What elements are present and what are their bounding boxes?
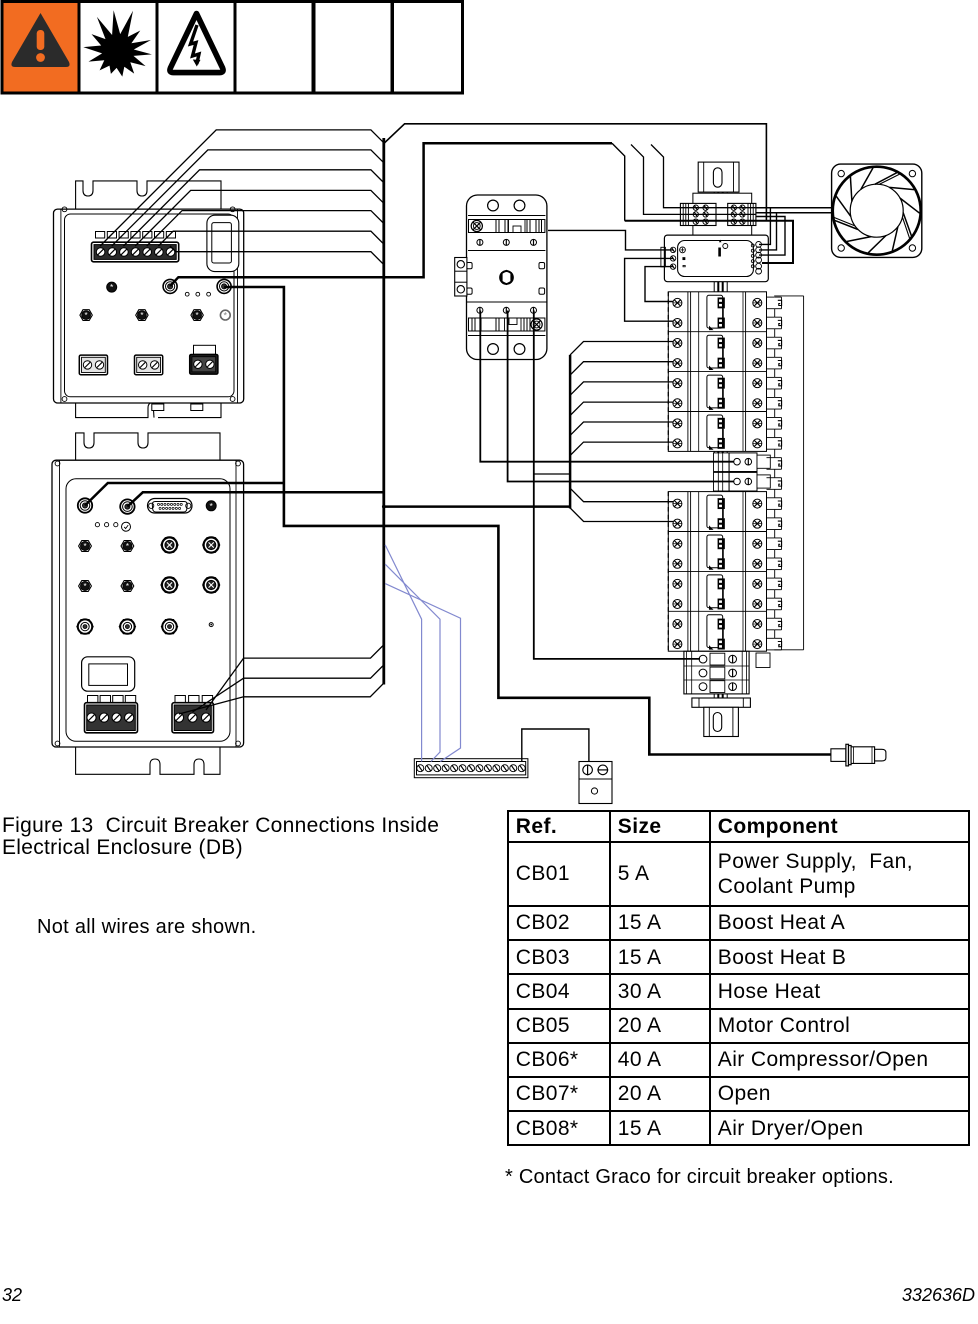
circuit breaker CB03	[673, 375, 762, 410]
lower module connector row 1	[78, 498, 135, 514]
mid junction terminal (2 pole)	[714, 453, 771, 491]
blue sensor wires from bundle to terminal strip	[385, 545, 460, 762]
circuit breaker CB01	[673, 295, 762, 330]
secondary bundle branch feeding breakers	[384, 342, 673, 522]
junction dot on bundle	[382, 505, 386, 509]
lower module enclosure body	[52, 460, 244, 747]
wire C: lower module connector 2 joins bundle	[127, 492, 383, 506]
circuit breaker CB08	[673, 615, 762, 650]
wire from terminal strip to ground lug box	[522, 729, 589, 762]
wire E: control board connector to terminal blocks (3 conductors)	[170, 143, 756, 286]
svg-text:*: *	[85, 311, 88, 320]
round connectors rows 2-3	[161, 537, 220, 592]
svg-text:*: *	[83, 542, 86, 551]
circuit breaker CB06	[673, 535, 762, 570]
lower module mounting bracket (top)	[76, 433, 220, 460]
lower module mounting bracket (bottom)	[76, 747, 220, 774]
warning sign W3 (electric shock hazard)	[157, 2, 235, 94]
svg-text:*: *	[126, 542, 129, 551]
control board mounting bracket (top)	[76, 181, 221, 209]
svg-text:*: *	[140, 311, 143, 320]
circuit breaker CB02	[673, 335, 762, 370]
fan wires	[756, 208, 832, 213]
ground lug box	[579, 762, 612, 804]
wire harness: 7 wires from control board terminal strip to bundle	[100, 130, 384, 265]
warning sign W1 (general warning, orange cell)	[2, 2, 79, 94]
control board mounting bracket (bottom)	[76, 403, 221, 418]
long terminal strip (field wiring)	[414, 759, 528, 778]
DIN rail mounting plate behind terminal blocks	[693, 193, 752, 235]
contactor bottom band detail	[469, 318, 545, 331]
power supply module PS1	[661, 235, 768, 282]
empty warning cells	[235, 2, 463, 94]
short link wire	[534, 473, 570, 475]
svg-text:*: *	[126, 582, 129, 591]
main wire bundle (vertical)	[382, 138, 385, 685]
svg-text:*: *	[224, 310, 228, 320]
contactor coil terminals (top row)	[477, 239, 537, 245]
breaker bank frame	[668, 492, 766, 652]
terminal strip TB1 on control board (7 positions)	[92, 232, 179, 262]
power module right terminal wires (nested)	[756, 208, 785, 255]
circuit breaker CB05	[673, 495, 762, 530]
contactor center (shaft)	[467, 263, 545, 295]
hex plug connectors rows 2-3	[79, 541, 134, 592]
lower module terminal wires joining bundle	[179, 645, 384, 714]
connector row1 small black	[206, 501, 216, 511]
DIN rail bottom bracket	[692, 698, 751, 737]
connector J3	[217, 279, 231, 293]
bottom junction block (3 pole)	[684, 651, 770, 694]
lower module terminal strip B (3 pos)	[172, 696, 214, 733]
contactor load wires to junction blocks	[480, 311, 734, 659]
status LEDs on lower module	[95, 522, 130, 531]
power module left terminal wires	[548, 230, 673, 321]
lower module terminal strip A (4 pos)	[85, 696, 138, 733]
circuit breaker CB04	[673, 415, 762, 450]
round connectors row 4	[77, 619, 213, 633]
contactor load terminals (bottom row)	[477, 307, 537, 313]
terminal block TB-L (DIN rail)	[680, 203, 716, 225]
wire through terminal blocks bottom row to power module	[625, 221, 793, 263]
wire A: control board connector to cable gland (main power)	[224, 287, 831, 755]
membrane display window	[82, 657, 135, 691]
bottom terminal block pair 1	[79, 355, 107, 375]
indicator LEDs (3)	[185, 292, 210, 296]
DIN rail top bracket	[698, 162, 739, 192]
bottom terminal block pair 3 (power, black)	[190, 345, 218, 374]
svg-text:*: *	[196, 311, 199, 320]
wire F: bundle top to DIN terminal area (right loop)	[384, 124, 767, 221]
display cutout on control board	[207, 215, 239, 271]
circuit breaker CB07	[673, 575, 762, 610]
D-sub connector	[148, 499, 193, 514]
breaker bank frame	[668, 292, 766, 452]
terminal block TB-R (DIN rail)	[728, 203, 756, 225]
bus bar comb / jumper plate	[767, 296, 804, 650]
hex connectors row	[80, 310, 230, 321]
connector J2	[163, 279, 177, 293]
cable gland / bulkhead fitting	[831, 744, 886, 766]
wire D: lower module connector 1 joins wire A	[85, 483, 284, 506]
contactor side latch	[455, 258, 467, 297]
bottom terminal block pair 2	[135, 355, 163, 375]
cooling fan	[832, 164, 922, 257]
control board enclosure body	[54, 207, 244, 403]
svg-text:*: *	[83, 582, 86, 591]
contactor top band detail	[469, 220, 545, 233]
contactor K1 body	[467, 195, 547, 360]
connector J1 (small black)	[107, 282, 117, 292]
DIN rail vertical lines	[714, 192, 727, 700]
warning sign W2 (explosion hazard)	[79, 2, 157, 94]
